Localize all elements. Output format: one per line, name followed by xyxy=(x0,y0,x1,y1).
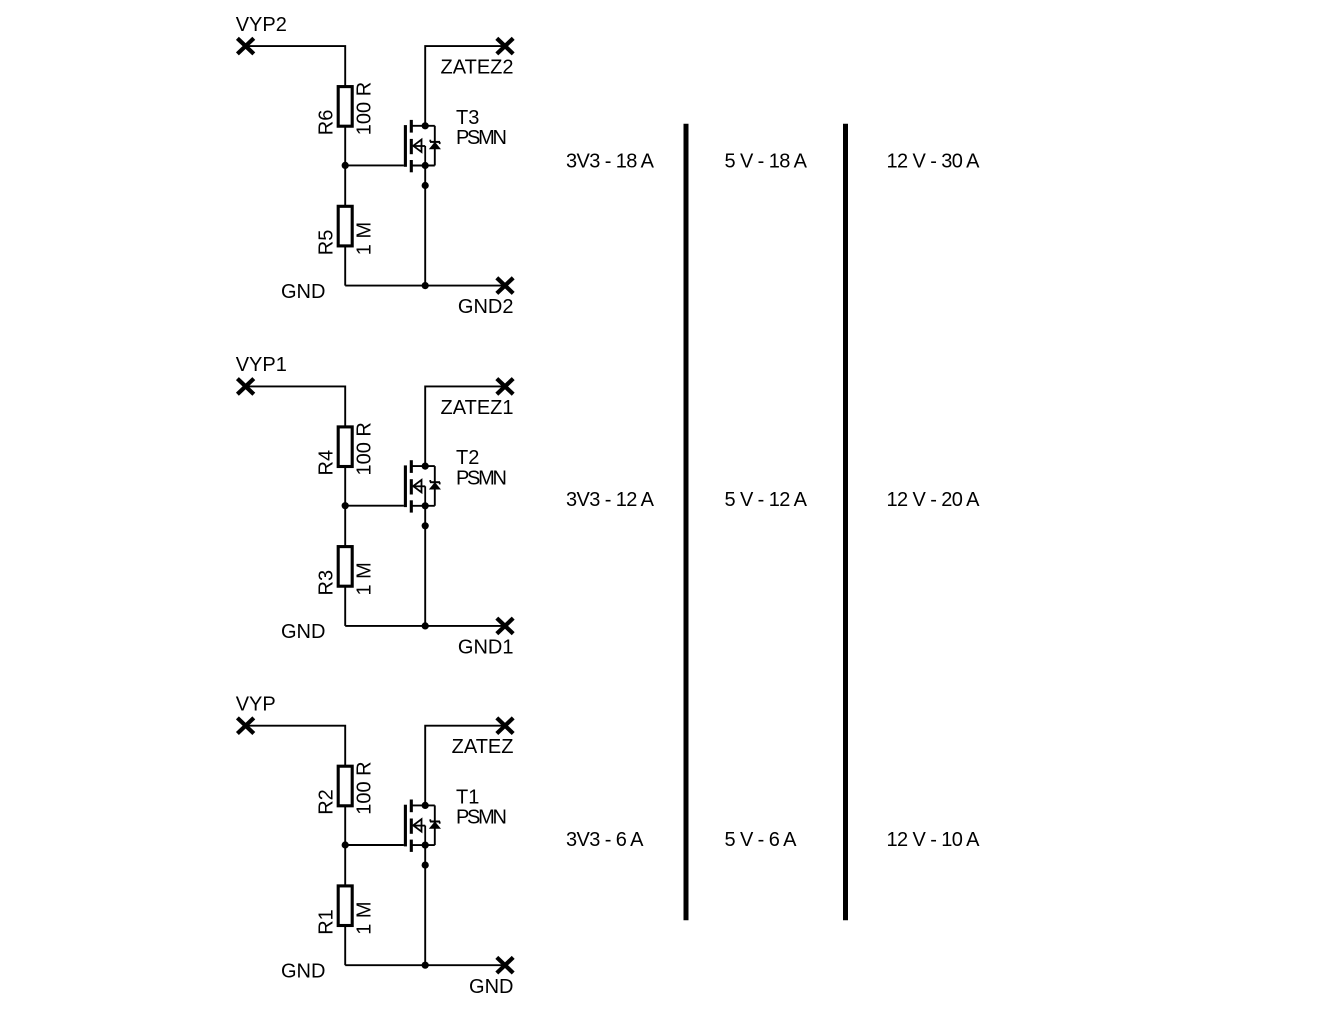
svg-text:VYP2: VYP2 xyxy=(236,14,287,36)
wire source to GND rail xyxy=(424,845,426,965)
svg-text:R4: R4 xyxy=(316,450,338,476)
svg-text:100 R: 100 R xyxy=(354,761,376,814)
svg-text:3V3 - 6 A: 3V3 - 6 A xyxy=(566,829,644,851)
separator bar 2 (between 5 V and 12 V columns) xyxy=(843,124,848,921)
wire R1 bottom to GND rail xyxy=(344,926,346,966)
svg-text:ZATEZ1: ZATEZ1 xyxy=(441,397,514,419)
terminal X ZATEZ2 xyxy=(497,38,513,54)
resistor R4 xyxy=(338,427,352,467)
wire VYP net: terminal to resistor R2 (horizontal + vertical) xyxy=(246,726,346,767)
svg-text:T3: T3 xyxy=(456,107,479,129)
wire source to GND rail xyxy=(424,166,426,286)
svg-text:R3: R3 xyxy=(316,570,338,596)
wire GND rail horizontal xyxy=(345,285,505,287)
svg-text:1 M: 1 M xyxy=(354,562,376,595)
wire drain to ZATEZ terminal xyxy=(425,726,505,806)
transistor T2 (N-MOSFET PSMN) xyxy=(405,460,440,512)
junction drain node xyxy=(422,463,429,470)
svg-text:PSMN: PSMN xyxy=(456,807,505,829)
terminal X ZATEZ1 xyxy=(497,379,513,395)
svg-text:3V3 - 18 A: 3V3 - 18 A xyxy=(566,150,655,172)
svg-text:3V3 - 12 A: 3V3 - 12 A xyxy=(566,489,655,511)
wire GND rail horizontal xyxy=(345,625,505,627)
resistor R6 xyxy=(338,87,352,127)
svg-text:5 V - 18 A: 5 V - 18 A xyxy=(725,150,808,172)
junction source wire node xyxy=(422,862,429,869)
junction source node xyxy=(422,502,429,509)
resistor R5 xyxy=(338,206,352,246)
terminal X VYP xyxy=(237,718,253,734)
wire R6 bottom to gate node xyxy=(344,126,346,165)
svg-text:R6: R6 xyxy=(316,110,338,136)
junction source node xyxy=(422,162,429,169)
svg-text:VYP1: VYP1 xyxy=(236,354,287,376)
junction source node xyxy=(422,842,429,849)
junction source wire on GND rail xyxy=(422,962,429,969)
wire GND rail horizontal xyxy=(345,964,505,966)
terminal X VYP2 xyxy=(237,38,253,54)
resistor R2 xyxy=(338,766,352,806)
svg-text:GND1: GND1 xyxy=(458,637,514,659)
wire gate node to R1 top xyxy=(344,845,346,886)
svg-text:5 V - 12 A: 5 V - 12 A xyxy=(725,489,808,511)
svg-text:GND: GND xyxy=(281,960,325,982)
junction source wire node xyxy=(422,522,429,529)
separator bar 1 (between 3V3 and 5 V columns) xyxy=(684,124,689,921)
svg-text:GND: GND xyxy=(281,281,325,303)
svg-text:GND: GND xyxy=(281,621,325,643)
svg-text:12 V - 20 A: 12 V - 20 A xyxy=(887,489,981,511)
wire gate node to R5 top xyxy=(344,165,346,206)
junction gate node (divider tap) xyxy=(342,502,349,509)
terminal X GND1 xyxy=(497,618,513,634)
wire R5 bottom to GND rail xyxy=(344,246,346,286)
wire VYP2 net: terminal to resistor R6 (horizontal + vertical) xyxy=(246,46,346,87)
svg-text:100 R: 100 R xyxy=(354,82,376,135)
junction gate node (divider tap) xyxy=(342,162,349,169)
junction drain node xyxy=(422,802,429,809)
svg-text:12 V - 30 A: 12 V - 30 A xyxy=(887,150,981,172)
junction gate node (divider tap) xyxy=(342,841,349,848)
svg-text:100 R: 100 R xyxy=(354,422,376,475)
wire R2 bottom to gate node xyxy=(344,806,346,845)
svg-text:12 V - 10 A: 12 V - 10 A xyxy=(887,829,981,851)
wire R3 bottom to GND rail xyxy=(344,586,346,626)
svg-text:T1: T1 xyxy=(456,786,479,808)
svg-text:ZATEZ: ZATEZ xyxy=(452,736,514,758)
wire source to GND rail xyxy=(424,506,426,626)
svg-text:1 M: 1 M xyxy=(354,901,376,934)
svg-text:GND2: GND2 xyxy=(458,296,514,318)
wire gate node to transistor T1 gate xyxy=(345,844,404,846)
svg-text:R5: R5 xyxy=(316,230,338,256)
wire R4 bottom to gate node xyxy=(344,467,346,506)
terminal X VYP1 xyxy=(237,379,253,395)
transistor T3 (N-MOSFET PSMN) xyxy=(405,120,440,172)
svg-text:VYP: VYP xyxy=(236,693,276,715)
wire gate node to R3 top xyxy=(344,506,346,547)
svg-text:5 V - 6 A: 5 V - 6 A xyxy=(725,829,798,851)
junction drain node xyxy=(422,122,429,129)
resistor R1 xyxy=(338,886,352,926)
terminal X GND xyxy=(497,957,513,973)
wire gate node to transistor T2 gate xyxy=(345,505,404,507)
svg-text:T2: T2 xyxy=(456,447,479,469)
wire drain to ZATEZ2 terminal xyxy=(425,46,505,126)
svg-text:PSMN: PSMN xyxy=(456,467,505,489)
svg-text:PSMN: PSMN xyxy=(456,127,505,149)
terminal X ZATEZ xyxy=(497,718,513,734)
terminal X GND2 xyxy=(497,278,513,294)
transistor T1 (N-MOSFET PSMN) xyxy=(405,800,440,852)
svg-text:R2: R2 xyxy=(316,789,338,815)
wire VYP1 net: terminal to resistor R4 (horizontal + vertical) xyxy=(246,386,346,427)
junction source wire on GND rail xyxy=(422,282,429,289)
svg-text:ZATEZ2: ZATEZ2 xyxy=(441,57,514,79)
svg-text:1 M: 1 M xyxy=(354,222,376,255)
resistor R3 xyxy=(338,547,352,587)
wire drain to ZATEZ1 terminal xyxy=(425,386,505,466)
wire gate node to transistor T3 gate xyxy=(345,164,404,166)
junction source wire node xyxy=(422,182,429,189)
svg-text:R1: R1 xyxy=(316,909,338,935)
junction source wire on GND rail xyxy=(422,622,429,629)
svg-text:GND: GND xyxy=(469,976,513,998)
